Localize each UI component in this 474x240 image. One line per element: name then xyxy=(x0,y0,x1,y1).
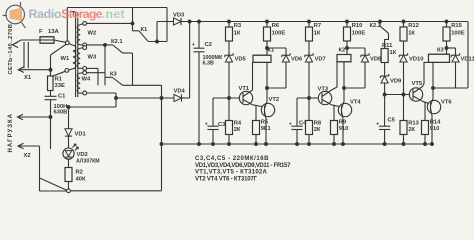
svg-text:К2: К2 xyxy=(339,47,346,53)
svg-text:R8: R8 xyxy=(314,121,322,127)
node X1 mains input arrows and label xyxy=(13,42,32,81)
svg-text:C3,C4,C5 - 220МК/16В: C3,C4,C5 - 220МК/16В xyxy=(195,156,269,162)
svg-text:VD5: VD5 xyxy=(235,57,247,63)
wire VT1 collector xyxy=(252,62,255,90)
svg-text:VT1,VT3,VT5 - КТ3102А: VT1,VT3,VT5 - КТ3102А xyxy=(195,170,268,176)
svg-text:R11: R11 xyxy=(382,43,393,49)
resistor R6 100Е xyxy=(264,23,286,41)
svg-text:VD11: VD11 xyxy=(461,57,474,63)
svg-text:W4: W4 xyxy=(82,77,91,83)
zener diode VD7 xyxy=(305,53,326,62)
svg-text:1К: 1К xyxy=(408,31,415,37)
node junction VD4 wire xyxy=(160,97,163,100)
wire feed R15 xyxy=(445,20,448,27)
wire feed R6 xyxy=(266,20,269,27)
svg-text:VT3: VT3 xyxy=(318,87,329,93)
svg-text:1К: 1К xyxy=(390,50,397,56)
resistor R10 100Е xyxy=(344,23,366,41)
svg-text:RadioStorage.net: RadioStorage.net xyxy=(29,7,125,21)
wire mains lower X1 xyxy=(18,69,50,71)
label components list xyxy=(195,156,291,182)
contact K3 xyxy=(110,72,123,86)
resistor R9 910 xyxy=(331,105,349,145)
wire coil to VT2 collector xyxy=(266,62,268,101)
wire zener to base line xyxy=(402,62,405,96)
svg-text:VD4: VD4 xyxy=(174,89,186,95)
capacitor С3 xyxy=(205,98,226,145)
label НАГРУЗКА load xyxy=(8,113,14,152)
winding W2 xyxy=(77,24,83,45)
svg-text:К2.1: К2.1 xyxy=(111,39,123,45)
resistor R5 9К1 xyxy=(253,105,272,145)
svg-text:2К: 2К xyxy=(408,127,415,133)
svg-text:VT6: VT6 xyxy=(441,100,452,106)
svg-text:X2: X2 xyxy=(24,153,31,159)
svg-text:100Е: 100Е xyxy=(272,31,286,37)
wire to zener xyxy=(308,41,310,54)
resistor R15 100Е xyxy=(443,23,465,41)
svg-text:АЛ307КМ: АЛ307КМ xyxy=(76,159,100,165)
wire W3 bottom stub xyxy=(87,68,98,85)
wire riser to supply rail xyxy=(156,22,158,42)
node bottom junction circle xyxy=(67,189,71,193)
wire R11 to VD9 xyxy=(384,63,386,75)
wire VT1 emitter to VT2 base xyxy=(253,105,265,107)
transistor VT3 xyxy=(318,87,332,105)
wire riser to top frame xyxy=(67,8,167,41)
svg-text:R12: R12 xyxy=(408,23,419,29)
svg-text:VD1,VD3,VD4,VD6,VD9,VD11 - FR1: VD1,VD3,VD4,VD6,VD9,VD11 - FR157 xyxy=(195,163,291,169)
svg-text:2К: 2К xyxy=(314,127,321,133)
svg-text:VD1: VD1 xyxy=(75,132,87,138)
wire VT2 emitter xyxy=(265,119,268,146)
label F 13A xyxy=(39,29,59,35)
relay coil К3 xyxy=(429,48,450,63)
label W4 xyxy=(82,77,91,83)
svg-text:VT1: VT1 xyxy=(239,86,250,92)
wire ground rail xyxy=(162,143,434,145)
svg-text:R6: R6 xyxy=(272,23,280,29)
resistor R1 33E xyxy=(48,76,54,91)
fuse F1 13A xyxy=(40,37,66,43)
wire C2 branch xyxy=(198,20,201,145)
svg-text:R13: R13 xyxy=(408,121,419,127)
wire contact outputs bus xyxy=(123,84,162,86)
svg-text:VD10: VD10 xyxy=(409,57,424,63)
wire supply rail xyxy=(181,21,468,23)
contact K2.1 xyxy=(111,39,123,53)
wire W2 bottom to K2.1 xyxy=(87,44,113,46)
wire VD1 branch top xyxy=(67,106,116,129)
svg-text:1К: 1К xyxy=(234,31,241,37)
diode VD11 xyxy=(432,47,474,90)
transistor VT6 xyxy=(427,98,452,115)
svg-text:VD9: VD9 xyxy=(390,79,402,85)
wire K1 output xyxy=(148,41,167,43)
capacitor С5 xyxy=(376,95,395,146)
wire to relay coil xyxy=(266,41,268,55)
svg-text:VD6: VD6 xyxy=(291,57,303,63)
svg-text:VT2: VT2 xyxy=(269,97,280,103)
resistor R7 1К xyxy=(306,23,322,41)
resistor R4 2К xyxy=(226,98,242,145)
wire K2.2 to R11 xyxy=(385,33,389,48)
wire mains upper to fuse xyxy=(13,40,41,45)
wire VD9 to stage3 base xyxy=(383,83,386,96)
wire feed R12 xyxy=(402,20,405,27)
wire to zener xyxy=(403,41,405,54)
watermark text RadioStorage.net xyxy=(29,7,125,21)
node W1 bottom terminal xyxy=(65,69,69,73)
svg-text:F: F xyxy=(39,29,43,35)
resistor R13 2К xyxy=(400,95,420,146)
label W2 xyxy=(88,31,97,37)
node W2 terminals xyxy=(83,22,87,47)
svg-text:100Е: 100Е xyxy=(451,31,465,37)
svg-text:+: + xyxy=(289,122,292,128)
wire coil to VT4 collector xyxy=(343,62,345,102)
resistor R2 40K xyxy=(65,168,86,183)
svg-text:2К: 2К xyxy=(234,127,241,133)
diode VD6 xyxy=(266,47,303,90)
winding W3 xyxy=(77,48,83,69)
svg-text:100Е: 100Е xyxy=(352,31,366,37)
contact K1 xyxy=(133,27,149,41)
contact K2.2 xyxy=(370,20,389,33)
transistor VT1 xyxy=(239,86,253,105)
wire bottom return xyxy=(40,190,162,192)
svg-text:С5: С5 xyxy=(388,118,396,124)
svg-text:С3: С3 xyxy=(218,122,226,128)
svg-text:6,3В: 6,3В xyxy=(203,61,214,67)
wire to relay coil xyxy=(346,41,348,55)
label СЕТЬ mains voltage xyxy=(8,24,14,75)
svg-text:К3: К3 xyxy=(437,48,445,54)
capacitor С4 xyxy=(289,98,307,145)
wire supply rail left xyxy=(157,21,174,23)
resistor R12 1К xyxy=(400,23,419,41)
svg-text:33Е: 33Е xyxy=(55,83,65,89)
wire return line x161 xyxy=(161,85,163,191)
svg-text:+: + xyxy=(205,122,208,128)
label W1 xyxy=(61,56,70,62)
svg-text:W2: W2 xyxy=(88,31,97,37)
label C2 1000МК х16В xyxy=(203,42,223,67)
wire base line xyxy=(297,97,322,99)
svg-text:R4: R4 xyxy=(234,121,242,127)
wire R1 to C1 xyxy=(50,91,52,97)
wire VT3 emitter to VT4 base xyxy=(332,105,342,107)
svg-text:R15: R15 xyxy=(451,23,462,29)
wire K2.1 output xyxy=(123,53,133,85)
wire frame right edge down xyxy=(166,8,168,42)
label VD2 АЛ307КМ xyxy=(76,152,100,165)
svg-text:СЕТЬ~140..270В: СЕТЬ~140..270В xyxy=(8,24,14,75)
node junction R1 branch xyxy=(49,68,52,71)
wire rail right end down xyxy=(433,22,468,89)
wire C1 down xyxy=(50,100,52,149)
svg-text:40К: 40К xyxy=(76,177,86,183)
svg-text:R5: R5 xyxy=(261,120,269,126)
svg-text:910: 910 xyxy=(430,126,440,132)
svg-text:С4: С4 xyxy=(299,121,307,127)
resistor R8 2К xyxy=(306,98,322,145)
wire feed R10 xyxy=(346,20,349,27)
wire diagonal junction to R1 branch xyxy=(51,44,66,76)
diode VD4 xyxy=(174,89,186,102)
svg-text:R2: R2 xyxy=(76,170,83,176)
wire VT3 collector xyxy=(332,62,338,90)
transistor VT4 xyxy=(338,100,361,119)
svg-text:R1: R1 xyxy=(55,77,63,83)
node fuse-W1 junction xyxy=(65,41,69,45)
wire W2 top to K1 xyxy=(87,8,134,31)
svg-text:VD3: VD3 xyxy=(173,13,185,19)
svg-text:X1: X1 xyxy=(24,75,32,81)
svg-text:630В: 630В xyxy=(54,110,68,116)
wire VD1 to VD2 xyxy=(68,136,70,148)
svg-text:К3: К3 xyxy=(110,72,118,78)
node load upper arrow xyxy=(18,114,52,120)
wire zener to base line xyxy=(308,62,311,99)
label R1 33E xyxy=(55,77,65,90)
wire coil to VT6 collector xyxy=(432,62,434,98)
svg-text:К2.2: К2.2 xyxy=(370,23,382,29)
wire VD4 feed xyxy=(87,93,174,107)
wire VD2 to R2 xyxy=(68,159,70,167)
transistor VT2 xyxy=(261,97,279,119)
svg-text:+: + xyxy=(192,42,195,48)
winding W4 xyxy=(77,73,83,94)
svg-text:НАГРУЗКА: НАГРУЗКА xyxy=(8,113,14,152)
wire zener to base line xyxy=(228,62,231,99)
label W3 xyxy=(88,55,97,61)
node W3 terminals xyxy=(83,46,87,71)
watermark logo RadioStorage xyxy=(3,2,26,28)
label Тр xyxy=(72,12,79,18)
resistor R14 910 xyxy=(422,102,442,146)
node X2 load arrow xyxy=(18,143,31,159)
wire to zener xyxy=(228,41,230,54)
svg-text:VD8: VD8 xyxy=(370,57,382,63)
diode VD1 xyxy=(65,129,87,138)
wire feed R7 xyxy=(308,20,311,27)
svg-text:R10: R10 xyxy=(352,23,363,29)
wire R2 to bottom node xyxy=(68,182,70,189)
svg-text:R3: R3 xyxy=(234,23,242,29)
svg-text:1К: 1К xyxy=(314,31,321,37)
wire VT5 collector xyxy=(423,62,429,86)
relay coil К2 xyxy=(337,47,351,62)
diode VD8 xyxy=(343,47,382,90)
transistor VT5 xyxy=(409,81,423,101)
zener diode VD9 xyxy=(380,74,402,85)
wire to relay coil xyxy=(446,41,448,54)
capacitor C2 1000uF xyxy=(192,42,205,52)
wire W4 top to K3 contact xyxy=(87,44,113,86)
svg-text:VT5: VT5 xyxy=(412,81,423,87)
svg-text:С1: С1 xyxy=(58,94,66,100)
diode VD3 xyxy=(173,13,185,26)
svg-text:W3: W3 xyxy=(88,55,97,61)
wire VT4 emitter xyxy=(342,119,345,146)
wire fuse to transformer node xyxy=(64,42,66,44)
node W4 terminals xyxy=(83,71,87,95)
wire base line xyxy=(385,94,413,96)
wire X2 down and diagonal to bottom node xyxy=(18,146,67,191)
svg-text:W1: W1 xyxy=(61,56,70,62)
svg-text:VD2: VD2 xyxy=(77,152,88,158)
svg-text:С2: С2 xyxy=(205,42,212,48)
wire VD4 to rail riser xyxy=(182,20,192,98)
relay coil К1 xyxy=(253,48,275,63)
svg-text:VT4: VT4 xyxy=(350,100,361,106)
wire VT6 emitter xyxy=(431,116,434,146)
zener diode VD5 xyxy=(225,53,247,62)
wire base line xyxy=(213,97,243,99)
wire W1 bottom to X1 wire xyxy=(53,71,66,76)
capacitor C1 100n 630V xyxy=(45,96,57,99)
svg-text:R14: R14 xyxy=(430,120,441,126)
resistor R3 1К xyxy=(226,23,242,41)
svg-text:R7: R7 xyxy=(314,23,321,29)
svg-text:VT2 VT4 VT6 - КТ3107Г: VT2 VT4 VT6 - КТ3107Г xyxy=(195,176,258,182)
resistor R11 1K xyxy=(381,43,397,63)
LED VD2 АЛ307КМ xyxy=(63,144,78,159)
svg-text:13А: 13А xyxy=(48,29,59,35)
wire VT5 emitter to VT6 base xyxy=(423,101,431,104)
node rail riser junction xyxy=(156,40,159,43)
svg-text:К1: К1 xyxy=(141,27,149,33)
transformer T core xyxy=(76,18,78,97)
svg-text:+: + xyxy=(376,122,379,128)
svg-text:VD7: VD7 xyxy=(315,57,326,63)
label C1 100Н 630В xyxy=(54,94,68,116)
wire feed R3 xyxy=(228,20,231,27)
zener diode VD10 xyxy=(399,53,423,62)
node junction ground rail corner xyxy=(160,143,163,146)
winding W1 primary xyxy=(68,44,75,71)
